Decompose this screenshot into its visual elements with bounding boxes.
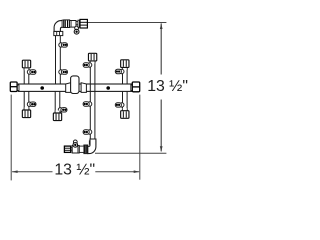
svg-text:13 ½": 13 ½" (147, 78, 188, 95)
svg-text:13 ½": 13 ½" (54, 162, 95, 179)
